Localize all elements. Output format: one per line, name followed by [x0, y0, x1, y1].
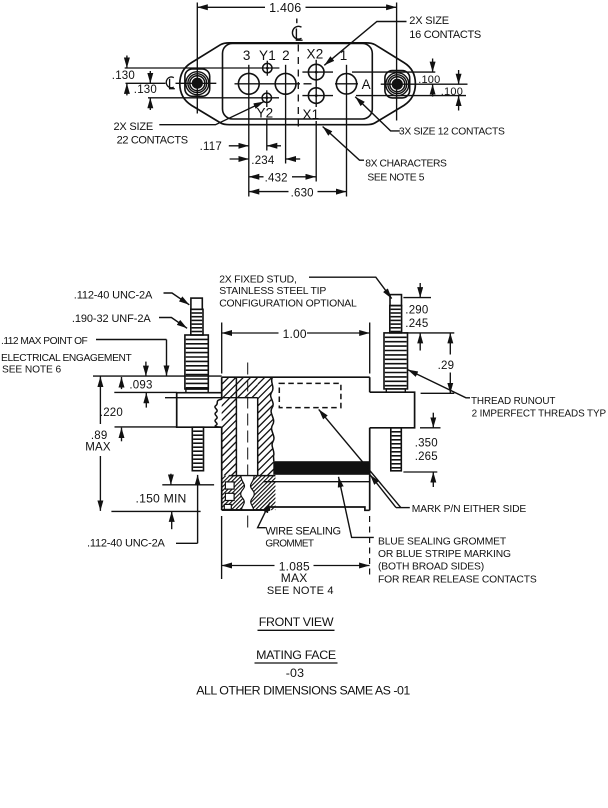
- row line X1 (.100 extension): [302, 95, 333, 97]
- svg-text:.100: .100: [441, 86, 463, 98]
- note .112 MAX POINT OF ELECTRICAL ENGAGEMENT: [1, 336, 167, 376]
- svg-text:.350: .350: [415, 438, 438, 450]
- dimension .100 upper: [418, 59, 440, 97]
- hidden marking area (dashed rectangle): [279, 383, 341, 407]
- row line Y1 (.130 extension): [125, 67, 280, 69]
- svg-text:-03: -03: [286, 666, 305, 680]
- contact Y2: [262, 90, 271, 102]
- svg-text:.093: .093: [129, 380, 152, 392]
- svg-text:.112-40 UNC-2A: .112-40 UNC-2A: [87, 538, 166, 550]
- body bottom profile with grommet step: [222, 507, 370, 510]
- main horizontal centerline right segment: [381, 83, 468, 85]
- svg-text:.630: .630: [291, 187, 314, 199]
- title FRONT VIEW: [258, 615, 335, 630]
- title MATING FACE: [255, 648, 338, 663]
- svg-text:2X SIZE: 2X SIZE: [409, 15, 449, 27]
- contact 2: [275, 65, 296, 95]
- insert cross-hatch left column: [123, 377, 329, 475]
- extension line body top (left): [93, 375, 222, 377]
- contact 3: [238, 65, 259, 95]
- svg-text:8X CHARACTERS: 8X CHARACTERS: [365, 158, 447, 169]
- svg-text:.112-40 UNC-2A: .112-40 UNC-2A: [74, 290, 153, 302]
- callout .190-32 UNF-2A: [72, 313, 187, 328]
- note MARK P/N EITHER SIDE: [319, 409, 527, 515]
- dimension 1.085 MAX SEE NOTE 4: [222, 516, 370, 597]
- right stud lower .112-40 thread: [391, 428, 402, 471]
- svg-text:SEE NOTE 5: SEE NOTE 5: [367, 173, 424, 184]
- svg-text:X2: X2: [307, 47, 324, 62]
- svg-text:GROMMET: GROMMET: [265, 538, 314, 549]
- left stud .112-40 thread section: [191, 309, 203, 335]
- svg-text:.234: .234: [251, 155, 275, 167]
- dimension .29: [421, 333, 455, 393]
- left stud .190-32 thread section: [185, 335, 208, 389]
- body right edge: [369, 377, 371, 392]
- svg-text:A: A: [362, 77, 371, 92]
- left stud lower .112-40 thread: [192, 427, 203, 471]
- svg-text:2X FIXED STUD,: 2X FIXED STUD,: [219, 274, 296, 285]
- svg-text:.112 MAX POINT OF: .112 MAX POINT OF: [1, 336, 88, 347]
- svg-text:.100: .100: [418, 74, 440, 86]
- svg-text:MAX: MAX: [85, 441, 111, 453]
- body top edge (mating face): [222, 376, 370, 378]
- svg-text:.29: .29: [438, 360, 455, 372]
- insert seat line: [165, 397, 258, 399]
- grommet bottom edge redraw: [222, 509, 270, 511]
- extension line contact Y2: [266, 103, 268, 107]
- contact X1: [308, 88, 324, 104]
- svg-text:THREAD RUNOUT: THREAD RUNOUT: [471, 396, 555, 407]
- svg-text:.290: .290: [405, 304, 428, 316]
- svg-text:.130: .130: [112, 70, 135, 82]
- row line Y2 (.130 extension): [148, 97, 279, 99]
- blue sealing grommet stripe (solid bar): [273, 461, 369, 475]
- callout .112-40 UNC-2A (top): [74, 290, 190, 305]
- svg-text:.265: .265: [415, 451, 438, 463]
- svg-text:1.00: 1.00: [283, 327, 307, 341]
- svg-text:.150 MIN: .150 MIN: [136, 491, 187, 505]
- dimension .100 lower: [441, 70, 463, 111]
- dimension .630: [249, 187, 347, 199]
- dimension 1.406: [197, 1, 396, 15]
- dimension .350 / .265: [403, 413, 440, 487]
- svg-text:Y1: Y1: [259, 48, 276, 63]
- svg-text:SEE NOTE 6: SEE NOTE 6: [2, 365, 61, 376]
- contact cavity walls: [235, 377, 237, 475]
- left fixed stud contact (2X size 22): [185, 69, 210, 96]
- svg-text:.220: .220: [100, 407, 123, 419]
- extension line contact 2: [285, 94, 287, 163]
- cavity bottom line: [229, 475, 276, 477]
- dimension .290 / .245: [403, 283, 454, 351]
- svg-text:2X SIZE: 2X SIZE: [114, 121, 154, 133]
- svg-text:.117: .117: [200, 141, 222, 153]
- body left edge upper: [221, 377, 223, 399]
- note 8X CHARACTERS SEE NOTE 5: [323, 127, 447, 184]
- left centerline symbol: [166, 77, 175, 89]
- note 3X SIZE 12 CONTACTS: [355, 97, 505, 138]
- svg-text:MAX: MAX: [281, 571, 308, 585]
- svg-text:.245: .245: [405, 318, 428, 330]
- main horizontal centerline middle: [235, 83, 301, 85]
- extension line contact X1: [315, 104, 317, 108]
- contact Y1: [263, 61, 272, 76]
- mounting thread relief (zigzag) left edge: [215, 399, 222, 427]
- svg-text:Y2: Y2: [256, 105, 273, 120]
- callout .112-40 UNC-2A (bottom): [87, 475, 198, 550]
- left mounting flange: [177, 393, 222, 428]
- right stud .112-40 thread section: [390, 306, 402, 333]
- note 2X SIZE 22 CONTACTS: [114, 102, 264, 147]
- cavity centerline: [247, 363, 249, 532]
- dimension 1.00: [222, 323, 370, 374]
- extension line right contact centerline: [396, 3, 398, 121]
- left stud shank at flange: [186, 389, 208, 393]
- vertical dashed centerline of insert: [297, 45, 299, 130]
- note BLUE SEALING GROMMET: [339, 477, 537, 586]
- svg-text:22 CONTACTS: 22 CONTACTS: [117, 134, 188, 146]
- dimension .093: [129, 362, 152, 408]
- svg-text:2: 2: [282, 48, 290, 63]
- right fixed stud contact: [385, 71, 410, 98]
- extension line flange top (left): [114, 391, 176, 393]
- note 2X FIXED STUD: [219, 274, 392, 309]
- dimension .220: [100, 377, 123, 441]
- body left edge lower: [221, 427, 223, 510]
- svg-text:CONFIGURATION OPTIONAL: CONFIGURATION OPTIONAL: [219, 298, 357, 309]
- X2-X1 column line: [315, 60, 317, 104]
- svg-text:.190-32 UNF-2A: .190-32 UNF-2A: [72, 313, 151, 325]
- svg-text:BLUE SEALING GROMMET: BLUE SEALING GROMMET: [378, 536, 507, 547]
- svg-text:SEE NOTE 4: SEE NOTE 4: [267, 585, 334, 597]
- dimension .117: [200, 141, 281, 153]
- extension line flange bottom (left): [115, 426, 177, 428]
- insert cross-hatch top bridge: [216, 377, 273, 398]
- extension line contact 3: [248, 94, 250, 196]
- grommet left notches (white): [224, 482, 234, 510]
- contact 1 / A: [336, 65, 356, 95]
- svg-text:3: 3: [243, 48, 251, 63]
- svg-text:FOR REAR RELEASE CONTACTS: FOR REAR RELEASE CONTACTS: [378, 574, 537, 585]
- svg-text:(BOTH BROAD SIDES): (BOTH BROAD SIDES): [378, 562, 484, 573]
- svg-text:MATING FACE: MATING FACE: [256, 648, 336, 662]
- note THREAD RUNOUT: [408, 370, 607, 420]
- grommet wire hole (scalloped white channel): [241, 476, 255, 510]
- insert cross-hatch right column: [159, 377, 365, 475]
- dimension .150 MIN: [111, 474, 214, 530]
- dimension .432: [249, 173, 316, 185]
- insert wavy rear profile: [271, 377, 274, 461]
- svg-text:16 CONTACTS: 16 CONTACTS: [409, 29, 481, 41]
- right stud shank at flange: [386, 389, 405, 392]
- svg-text:.432: .432: [265, 173, 288, 185]
- svg-text:ALL OTHER DIMENSIONS SAME AS -: ALL OTHER DIMENSIONS SAME AS -01: [196, 684, 410, 698]
- svg-text:2 IMPERFECT THREADS TYP: 2 IMPERFECT THREADS TYP: [472, 408, 607, 419]
- svg-text:OR BLUE STRIPE MARKING: OR BLUE STRIPE MARKING: [378, 549, 511, 560]
- main horizontal centerline left segment: [126, 82, 166, 84]
- dimension .130 lower: [134, 71, 157, 110]
- extension line contact 1: [346, 94, 348, 196]
- dimension .234: [230, 155, 301, 167]
- svg-text:X1: X1: [302, 107, 319, 122]
- extension line left contact centerline: [196, 3, 198, 114]
- svg-text:1.406: 1.406: [269, 1, 301, 15]
- svg-text:ELECTRICAL ENGAGEMENT: ELECTRICAL ENGAGEMENT: [1, 353, 132, 364]
- right stud .190-32 thread section: [384, 333, 408, 389]
- svg-text:.130: .130: [134, 84, 157, 96]
- top centerline symbol: [292, 19, 302, 41]
- right mounting flange: [370, 392, 415, 428]
- svg-text:WIRE SEALING: WIRE SEALING: [265, 525, 340, 537]
- grommet retention line below bar: [264, 481, 370, 483]
- svg-text:3X SIZE 12 CONTACTS: 3X SIZE 12 CONTACTS: [399, 126, 505, 137]
- svg-text:FRONT VIEW: FRONT VIEW: [259, 615, 334, 629]
- row line X2 (.100 extension): [302, 71, 333, 73]
- dimension .130 upper: [112, 56, 135, 96]
- contact X2: [308, 64, 324, 80]
- note WIRE SEALING GROMMET: [258, 503, 341, 550]
- svg-text:.89: .89: [91, 430, 108, 442]
- right fixed stud tip: [390, 295, 402, 306]
- contact labels: [243, 47, 371, 122]
- connector shell outline (front view): [180, 43, 416, 125]
- dimension .89 MAX: [85, 377, 111, 511]
- wire sealing grommet hatch: [187, 476, 310, 511]
- note 2X SIZE 16 CONTACTS: [324, 15, 481, 65]
- svg-text:STAINLESS STEEL TIP: STAINLESS STEEL TIP: [219, 286, 326, 297]
- insert interface rounded rectangle: [223, 43, 373, 119]
- left fixed stud tip: [191, 298, 202, 309]
- svg-text:MARK P/N EITHER SIDE: MARK P/N EITHER SIDE: [412, 504, 527, 515]
